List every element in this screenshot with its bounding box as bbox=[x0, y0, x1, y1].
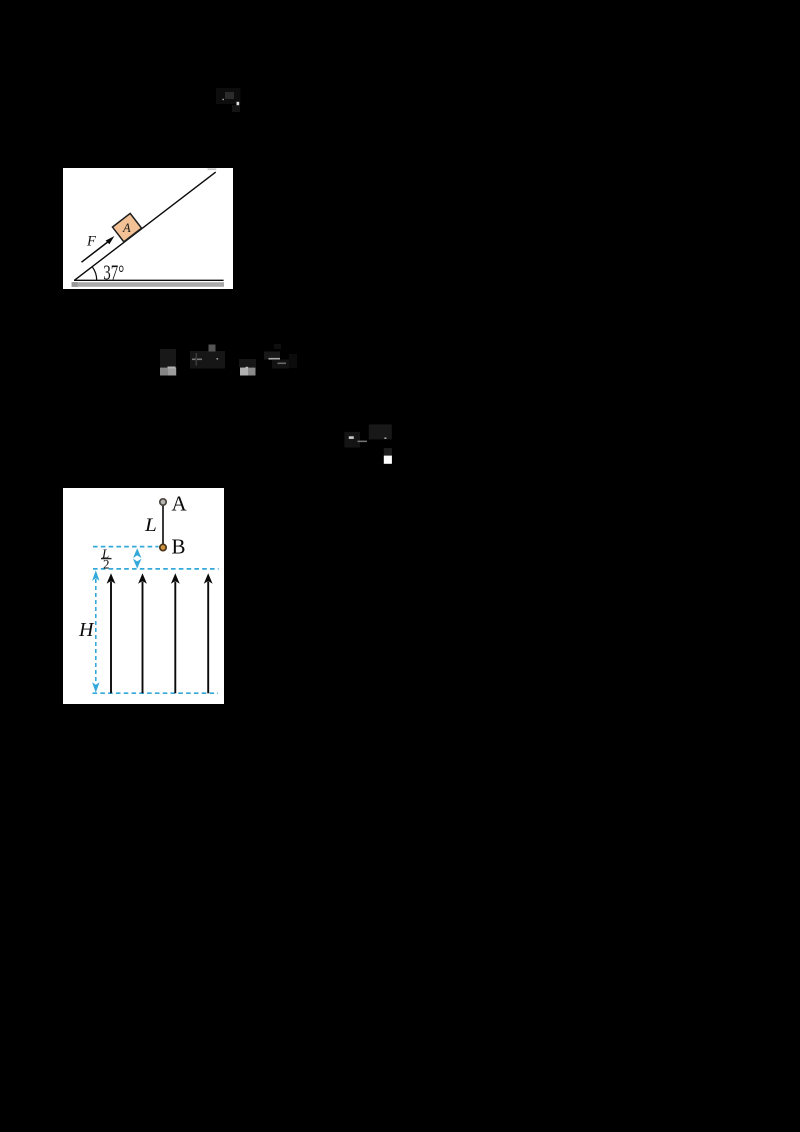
figure 2: rod AB above field region bbox=[63, 488, 224, 704]
blob b bbox=[190, 351, 225, 369]
blob a bbox=[160, 349, 176, 367]
gray smudge top right bbox=[208, 168, 217, 170]
L/2 small double arrow bbox=[133, 548, 141, 568]
figure 1: inclined plane bbox=[63, 168, 233, 289]
endpoint B dot bbox=[160, 544, 166, 550]
angle arc bbox=[92, 267, 97, 281]
svg-text:B: B bbox=[172, 534, 186, 558]
dashed line bottom of field bbox=[93, 692, 219, 694]
blob c bbox=[239, 359, 256, 367]
incline line bbox=[74, 172, 215, 280]
endpoint A dot bbox=[160, 499, 166, 505]
white square bbox=[384, 456, 392, 464]
faint equation remnant 1 (top) bbox=[210, 84, 246, 116]
dashed line at B level bbox=[93, 546, 159, 548]
svg-text:A: A bbox=[172, 491, 188, 515]
ground line bbox=[74, 279, 224, 281]
ground gray strip bbox=[72, 282, 224, 287]
block A bbox=[112, 213, 141, 241]
svg-text:2: 2 bbox=[103, 556, 110, 571]
field line 1 bbox=[111, 582, 208, 694]
svg-text:F: F bbox=[86, 234, 96, 250]
rod bbox=[162, 502, 164, 548]
svg-text:L: L bbox=[144, 515, 157, 536]
svg-text:H: H bbox=[78, 619, 95, 641]
force F arrow bbox=[82, 240, 111, 263]
H dimension dashed line with arrows bbox=[95, 579, 97, 684]
faint equation remnant 3 (with white square) bbox=[340, 420, 400, 468]
svg-text:A: A bbox=[122, 221, 131, 235]
svg-text:37°: 37° bbox=[103, 261, 124, 285]
faint equation remnant 2 (middle row) bbox=[155, 340, 305, 380]
dashed line top of field bbox=[93, 568, 219, 570]
blob d bbox=[264, 352, 280, 360]
